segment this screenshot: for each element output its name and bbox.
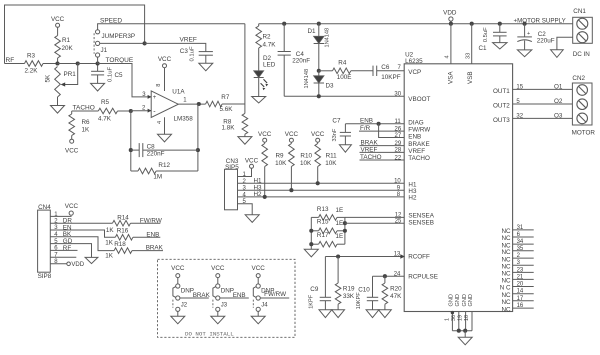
svg-text:NC: NC [501, 235, 511, 242]
wire top supply rail [259, 23, 573, 25]
svg-text:34: 34 [517, 239, 524, 245]
svg-text:1E: 1E [336, 233, 344, 240]
wire R8 to ground [244, 134, 246, 136]
wire ENB net [345, 123, 404, 125]
wire J1 pin2 to VREF node [100, 42, 145, 44]
resistor R19 [337, 257, 339, 284]
svg-text:1E: 1E [336, 207, 344, 214]
connector CN4 box [38, 210, 51, 272]
node GND pin1 dot [451, 311, 454, 314]
ground (CN3) [245, 215, 259, 223]
svg-text:0.1uF: 0.1uF [108, 67, 114, 82]
jumper J3 pin2 [216, 296, 220, 300]
svg-text:ENB: ENB [146, 231, 159, 238]
svg-text:4: 4 [157, 121, 163, 124]
svg-text:+: + [527, 31, 530, 37]
svg-text:29: 29 [395, 141, 402, 147]
pin NC 14 stub [513, 293, 534, 295]
svg-text:17: 17 [517, 296, 524, 302]
svg-text:10K: 10K [325, 160, 337, 167]
wire H2 row [238, 196, 405, 198]
svg-text:5K: 5K [45, 74, 52, 83]
svg-text:RCPULSE: RCPULSE [408, 273, 438, 280]
ground (C3) [199, 63, 213, 71]
ground (C7) [339, 145, 351, 152]
node R19 junction [336, 254, 340, 258]
capacitor C1 [499, 24, 501, 33]
wire RF feedback loop (left edge and top edge to VREF node) [5, 5, 145, 64]
svg-text:GND: GND [462, 294, 468, 306]
capacitor C2 (electrolytic) [524, 24, 526, 37]
terminal CN1-1 [577, 18, 588, 29]
wire to R4 [319, 70, 333, 72]
svg-text:J4: J4 [261, 303, 268, 309]
wire ENB net (J3) [220, 297, 249, 299]
wire J3 to ground [217, 311, 219, 316]
svg-text:R18: R18 [114, 241, 126, 248]
svg-text:TACHO: TACHO [360, 154, 382, 161]
wire SPEED net (J1 pin1 up and right to feedback column) [98, 24, 245, 30]
node VBOOT junction [317, 94, 321, 98]
dashed box DO NOT INSTALL [158, 259, 296, 337]
IC U2 body [404, 64, 512, 312]
svg-text:VSB: VSB [467, 71, 474, 84]
pin NC 34 stub [513, 243, 534, 245]
svg-text:VCC: VCC [311, 131, 325, 138]
power VDD [449, 17, 453, 21]
svg-text:TACHO: TACHO [73, 104, 95, 111]
svg-text:O1: O1 [554, 84, 563, 91]
svg-text:C5: C5 [115, 72, 124, 79]
svg-text:DIAG: DIAG [408, 119, 423, 126]
node inverting input junction [129, 109, 133, 113]
wire BRAK net (J2) [180, 297, 209, 299]
wire EN row jog [50, 230, 115, 237]
svg-text:11: 11 [395, 119, 402, 125]
wire TORQUE to op-amp pin3 [98, 64, 152, 97]
jumper J2 pin3 [176, 307, 180, 311]
capacitor C7 [344, 124, 346, 133]
wire RCOFF net [325, 256, 402, 258]
svg-text:VREF: VREF [180, 37, 197, 44]
wire sense right rail [344, 217, 346, 244]
svg-text:OUT2: OUT2 [493, 102, 510, 109]
wire R12 right [156, 170, 198, 172]
svg-text:30: 30 [394, 92, 401, 98]
wire D2 to ground [258, 78, 260, 97]
svg-text:22: 22 [395, 155, 402, 161]
svg-text:1.8K: 1.8K [222, 125, 236, 132]
wire OUT1 [513, 88, 573, 90]
node C2 junction [523, 22, 527, 26]
svg-text:O2: O2 [554, 98, 563, 105]
wire D1 to R4 node [318, 44, 320, 71]
capacitor C4 [283, 24, 285, 52]
wire ENB to pin27 [379, 124, 405, 138]
pin NC 20 stub [513, 286, 534, 288]
wire VCC to J4 [257, 278, 259, 284]
svg-text:F/R: F/R [360, 125, 371, 132]
svg-text:O3: O3 [554, 113, 563, 120]
svg-text:26: 26 [395, 126, 402, 132]
svg-text:R3: R3 [27, 53, 36, 60]
svg-text:33nF: 33nF [332, 128, 338, 141]
ground (D2) [252, 97, 266, 104]
node C4 rail junction [282, 22, 286, 26]
svg-text:FW/RW: FW/RW [140, 217, 162, 224]
wire feedback right column [197, 104, 199, 171]
node ENB junction [377, 122, 381, 126]
wire VSB stub [471, 24, 473, 64]
svg-text:NC: NC [501, 263, 511, 270]
ground (J4) [251, 316, 265, 324]
svg-text:DO NOT INSTALL: DO NOT INSTALL [185, 330, 234, 337]
svg-text:VBOOT: VBOOT [408, 96, 430, 103]
resistor R2 [258, 24, 260, 26]
svg-text:32: 32 [516, 114, 523, 120]
wire pin8 [164, 68, 166, 91]
node D1 rail junction [317, 22, 321, 26]
jumper J1 dashed link [93, 33, 95, 54]
svg-text:GND: GND [449, 294, 455, 306]
pin NC 35 stub [513, 250, 534, 252]
power VCC (CN4) [69, 211, 73, 215]
svg-text:R4: R4 [338, 59, 347, 66]
wire R5 to inverting node [118, 110, 131, 112]
svg-text:10: 10 [394, 178, 401, 184]
svg-text:21: 21 [517, 274, 524, 280]
resistor R12 [131, 170, 138, 172]
wire RF row [50, 249, 77, 251]
svg-text:PR1: PR1 [64, 71, 77, 78]
resistor R17 [311, 243, 318, 245]
resistor R8 [244, 104, 246, 113]
svg-text:15: 15 [516, 85, 523, 91]
svg-text:C7: C7 [332, 118, 341, 125]
ground (CN1) [551, 50, 564, 58]
node A junction [55, 61, 59, 65]
svg-text:C3: C3 [180, 48, 189, 55]
power VCC (R9) [263, 138, 267, 142]
jumper J3 pin3 [216, 307, 220, 311]
op-amp pin2 arrow [148, 109, 152, 113]
wire feedback left column [130, 111, 132, 171]
svg-text:FW/RW: FW/RW [408, 126, 430, 133]
svg-text:1: 1 [444, 318, 450, 321]
jumper J4 pin1 [256, 284, 260, 288]
jumper J1 pin3 circle [96, 53, 100, 57]
svg-text:ENB: ENB [360, 118, 373, 125]
svg-text:C1: C1 [479, 45, 488, 52]
svg-text:R14: R14 [117, 215, 129, 222]
svg-text:12: 12 [395, 212, 402, 218]
svg-text:MOTOR: MOTOR [572, 129, 596, 136]
pin NC 23 stub [513, 271, 534, 273]
wire OUT2 [513, 103, 573, 105]
svg-text:2.2K: 2.2K [25, 68, 39, 75]
wire wiper node to TORQUE node [78, 63, 98, 65]
wire R4 to C6 [351, 70, 373, 72]
svg-text:VDD: VDD [443, 10, 457, 17]
svg-text:VCC: VCC [285, 131, 299, 138]
pin NC 21 stub [513, 278, 534, 280]
diode D1 [318, 24, 320, 37]
node VDD junction [449, 22, 453, 26]
svg-text:LM358: LM358 [174, 115, 194, 122]
svg-text:H2: H2 [254, 191, 263, 198]
svg-text:R11: R11 [326, 152, 338, 159]
wire R10 to H3 [290, 167, 292, 191]
resistor R20 [384, 276, 386, 283]
wire PR1 to ground [57, 97, 59, 106]
wire VREF net (chip) [360, 151, 405, 153]
wire R3 to node A [43, 63, 58, 65]
power VCC (J4) [256, 274, 260, 278]
svg-text:U1A: U1A [172, 89, 185, 96]
wire VREF net [145, 43, 206, 51]
svg-text:33: 33 [466, 53, 472, 59]
svg-text:R9: R9 [276, 152, 285, 159]
wire feedback column (SPEED) [244, 24, 246, 104]
resistor R14 [113, 220, 131, 226]
capacitor C6 [372, 66, 374, 76]
node R4 junction [317, 69, 321, 73]
wire SENSEA to pin12 [345, 216, 404, 218]
wire R1 to node A [57, 58, 59, 64]
ground (PR1) [51, 106, 65, 114]
svg-text:VCC: VCC [158, 56, 172, 63]
jumper J2 pin1 [176, 284, 180, 288]
jumper J2 pin2 [176, 296, 180, 300]
svg-text:VREF: VREF [408, 148, 425, 155]
node C8 right junction [196, 148, 200, 152]
svg-text:100E: 100E [337, 74, 352, 81]
pin NC 3 stub [513, 264, 534, 266]
pin NC 31 stub [513, 229, 534, 231]
svg-text:R10: R10 [300, 152, 312, 159]
wire RF to R3 [5, 63, 25, 65]
svg-text:1N4148: 1N4148 [304, 69, 310, 89]
svg-text:VCC: VCC [258, 131, 272, 138]
ground (CN4 GD) [85, 257, 98, 263]
svg-text:BRAK: BRAK [193, 292, 211, 299]
wire R7 to feedback column [222, 103, 245, 105]
jumper J1 pin1 circle [96, 30, 100, 34]
svg-text:1K: 1K [105, 239, 114, 246]
svg-text:R15: R15 [317, 218, 329, 225]
wire VSA stub [450, 24, 452, 64]
power VCC (R10) [289, 138, 293, 142]
wire FW/RW out [131, 222, 161, 224]
svg-text:10KPF: 10KPF [381, 74, 400, 81]
node GND bus junction 1 [457, 329, 461, 333]
wire DR row [50, 222, 112, 224]
wire CN3 pin1 [238, 168, 252, 176]
svg-text:VCC: VCC [245, 157, 259, 164]
wire BK row jog [50, 237, 114, 251]
wire J1 pin3 to TORQUE node [97, 57, 99, 63]
svg-text:0.1uF: 0.1uF [190, 46, 196, 61]
svg-text:VCC: VCC [65, 147, 79, 154]
jumper J4 pin2 [256, 296, 260, 300]
connector CN3 box [225, 169, 238, 210]
svg-text:ENB: ENB [408, 133, 421, 140]
node R10-H3 junction [289, 188, 293, 192]
svg-text:10K: 10K [300, 160, 312, 167]
capacitor C5 [97, 64, 99, 72]
svg-text:1E: 1E [336, 220, 344, 227]
svg-text:VCC: VCC [211, 265, 225, 272]
power VCC (J3) [216, 274, 220, 278]
svg-text:VCC: VCC [51, 16, 65, 23]
wire R11 to H1 [317, 167, 319, 184]
svg-text:28: 28 [395, 148, 402, 154]
svg-text:C9: C9 [310, 286, 319, 293]
svg-text:33K: 33K [343, 293, 355, 300]
node R9-H2 junction [263, 195, 267, 199]
wire J4 to ground [257, 311, 259, 316]
svg-text:BRAK: BRAK [146, 245, 164, 252]
wire GND pin 36 stub [458, 312, 460, 331]
wire GD row to ground [50, 244, 91, 258]
svg-text:220uF: 220uF [537, 37, 555, 44]
svg-text:13: 13 [394, 252, 401, 258]
wire pin4 [164, 117, 166, 134]
svg-text:GND: GND [455, 294, 461, 306]
power VCC (R1 top) [56, 23, 60, 27]
wire J2 to ground [177, 311, 179, 316]
potentiometer PR1 [55, 67, 61, 98]
wire R2 to D2 [258, 48, 260, 71]
node TORQUE junction [96, 61, 100, 65]
svg-text:16: 16 [517, 303, 524, 309]
ground (C5) [91, 83, 105, 91]
ground (C10) [366, 310, 379, 318]
svg-text:24: 24 [394, 271, 401, 277]
svg-text:VCC: VCC [252, 265, 266, 272]
svg-text:R16: R16 [117, 228, 129, 235]
svg-text:NC: NC [501, 306, 511, 313]
wire BRAK out [132, 250, 163, 252]
ground (R20) [379, 310, 392, 318]
node C8 left junction [129, 148, 133, 152]
ground (sense network) [304, 249, 318, 257]
svg-text:4: 4 [445, 55, 451, 58]
svg-text:220nF: 220nF [147, 150, 165, 157]
arrow RCOFF pin13 [400, 254, 405, 258]
svg-text:GND: GND [468, 294, 474, 306]
svg-text:CN2: CN2 [572, 75, 585, 82]
wire TACHO net (chip) [360, 159, 405, 161]
svg-text:1K: 1K [106, 227, 115, 234]
node GND bus junction 2 [463, 329, 467, 333]
connector CN2 box [572, 83, 592, 125]
wire GND pin 19 stub [465, 312, 467, 331]
svg-text:R5: R5 [101, 99, 110, 106]
wire VCC to J2 [177, 278, 179, 284]
wire D3 to VBOOT rail [318, 83, 320, 96]
wire GND bus [452, 330, 472, 332]
wire ENB out [133, 236, 160, 238]
svg-text:R20: R20 [390, 285, 402, 292]
svg-text:SIP8: SIP8 [38, 273, 52, 280]
svg-text:N C: N C [500, 285, 511, 292]
svg-text:C6: C6 [381, 64, 390, 71]
terminal CN2-2 [577, 99, 588, 110]
wire VCC to R1 [57, 27, 59, 35]
resistor R16 [115, 235, 133, 241]
capacitor C8 [131, 149, 139, 151]
power VCC (R11) [316, 138, 320, 142]
ground (op-amp pin4) [158, 134, 172, 142]
diode D3 [318, 71, 320, 76]
svg-text:NC: NC [501, 299, 511, 306]
resistor R13 [311, 216, 318, 218]
svg-text:LED: LED [263, 62, 276, 69]
wire CN1 ground [557, 37, 573, 50]
svg-text:JUMPER3P: JUMPER3P [102, 33, 136, 40]
svg-text:+: + [153, 95, 157, 101]
wire GND bus to ground [464, 331, 466, 338]
svg-text:1K: 1K [82, 127, 91, 134]
wire R9 to H2 [264, 167, 266, 197]
svg-text:R2: R2 [263, 33, 272, 40]
power VCC (op-amp pin8) [163, 64, 167, 68]
svg-text:CN1: CN1 [573, 8, 586, 15]
svg-text:5.6K: 5.6K [220, 106, 234, 113]
ground (C2) [517, 50, 531, 57]
pin NC 16 stub [513, 307, 534, 309]
node VREF junction [143, 41, 147, 45]
svg-text:R7: R7 [221, 94, 230, 101]
svg-text:H2: H2 [408, 195, 417, 202]
node R11-H1 junction [316, 181, 320, 185]
terminal CN2-3 [577, 113, 588, 124]
svg-text:NC: NC [501, 292, 511, 299]
LED D2 [254, 71, 264, 78]
terminal CN1-2 [577, 32, 588, 43]
wire VCC to J3 [217, 278, 219, 284]
capacitor C3 [199, 51, 213, 53]
svg-text:14: 14 [517, 289, 524, 295]
capacitor C10 [372, 276, 374, 297]
wire H1 row [238, 182, 405, 184]
node R20 junction [383, 274, 387, 278]
power VDD (CN4) [67, 262, 71, 266]
svg-text:VSA: VSA [448, 71, 455, 84]
wire sense left rail [310, 217, 312, 249]
jumper J3 shunt [213, 287, 216, 298]
svg-text:R6: R6 [82, 119, 91, 126]
svg-text:27: 27 [395, 133, 402, 139]
resistor R3 [25, 61, 44, 67]
svg-text:OUT3: OUT3 [493, 117, 510, 124]
svg-text:NC: NC [501, 249, 511, 256]
svg-text:1N4148: 1N4148 [325, 28, 331, 48]
svg-text:25: 25 [395, 218, 402, 224]
svg-text:36: 36 [451, 315, 457, 321]
svg-text:TACHO: TACHO [408, 155, 430, 162]
node sense left mid junction [309, 229, 313, 233]
resistor R7 [206, 101, 223, 107]
svg-text:19: 19 [458, 315, 464, 321]
svg-text:20: 20 [517, 282, 524, 288]
resistor R15 [311, 230, 318, 232]
wire GND pin 1 stub [451, 312, 453, 331]
ground (R19) [332, 310, 345, 318]
terminal CN2-1 [577, 85, 588, 96]
wire VDD to rail [450, 21, 452, 24]
